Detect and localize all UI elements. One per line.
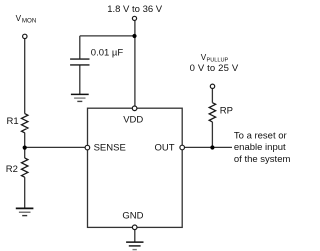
pin OUT circle — [180, 145, 185, 150]
wire supply terminal to VDD pin — [134, 21, 136, 106]
svg-text:0.01 µF: 0.01 µF — [91, 48, 124, 59]
svg-text:OUT: OUT — [155, 142, 175, 153]
capacitor C1 plates — [70, 59, 89, 65]
junction node supply/capacitor — [132, 34, 136, 38]
pin VDD circle — [132, 106, 137, 111]
svg-text:To a reset or: To a reset or — [234, 130, 287, 141]
wire RP to OUT net — [211, 122, 213, 147]
terminal VPULLUP — [210, 84, 214, 88]
svg-text:enable input: enable input — [234, 142, 286, 153]
ground (below GND pin) — [126, 241, 143, 243]
svg-text:VPULLUP: VPULLUP — [201, 53, 229, 64]
svg-text:0 V to 25 V: 0 V to 25 V — [190, 63, 239, 74]
wire capacitor top lead — [79, 36, 81, 59]
svg-text:VMON: VMON — [16, 14, 37, 24]
svg-text:1.8 V to 36 V: 1.8 V to 36 V — [107, 4, 163, 15]
wire R1 to node A — [24, 133, 26, 158]
wire node A to SENSE pin — [25, 146, 85, 148]
terminal 1.8V-36V supply — [132, 16, 136, 20]
junction node OUT/RP — [210, 145, 214, 149]
pin SENSE circle — [85, 145, 90, 150]
svg-text:SENSE: SENSE — [94, 142, 126, 153]
wire R2 to ground — [24, 177, 26, 208]
wire GND pin to ground — [134, 230, 136, 242]
wire OUT pin to system — [185, 146, 232, 148]
svg-text:GND: GND — [122, 210, 143, 221]
svg-text:VDD: VDD — [123, 115, 143, 126]
resistor RP — [209, 103, 215, 122]
resistor R1 — [22, 114, 28, 133]
wire supply to capacitor — [80, 35, 135, 37]
svg-text:of the system: of the system — [234, 154, 291, 165]
pin GND circle — [132, 225, 137, 230]
terminal VMON — [23, 34, 27, 38]
wire capacitor bottom lead — [79, 65, 81, 94]
svg-text:R2: R2 — [6, 164, 18, 175]
wire VMON to R1 — [24, 39, 26, 114]
resistor R2 — [22, 158, 28, 177]
comparator U1 box — [88, 108, 183, 227]
svg-text:RP: RP — [220, 106, 233, 117]
ground (below R2) — [16, 207, 34, 209]
wire VPULLUP to RP — [211, 89, 213, 103]
ground (below capacitor) — [71, 93, 89, 95]
junction node A (R1/R2/SENSE) — [23, 146, 27, 150]
svg-text:R1: R1 — [7, 116, 19, 127]
